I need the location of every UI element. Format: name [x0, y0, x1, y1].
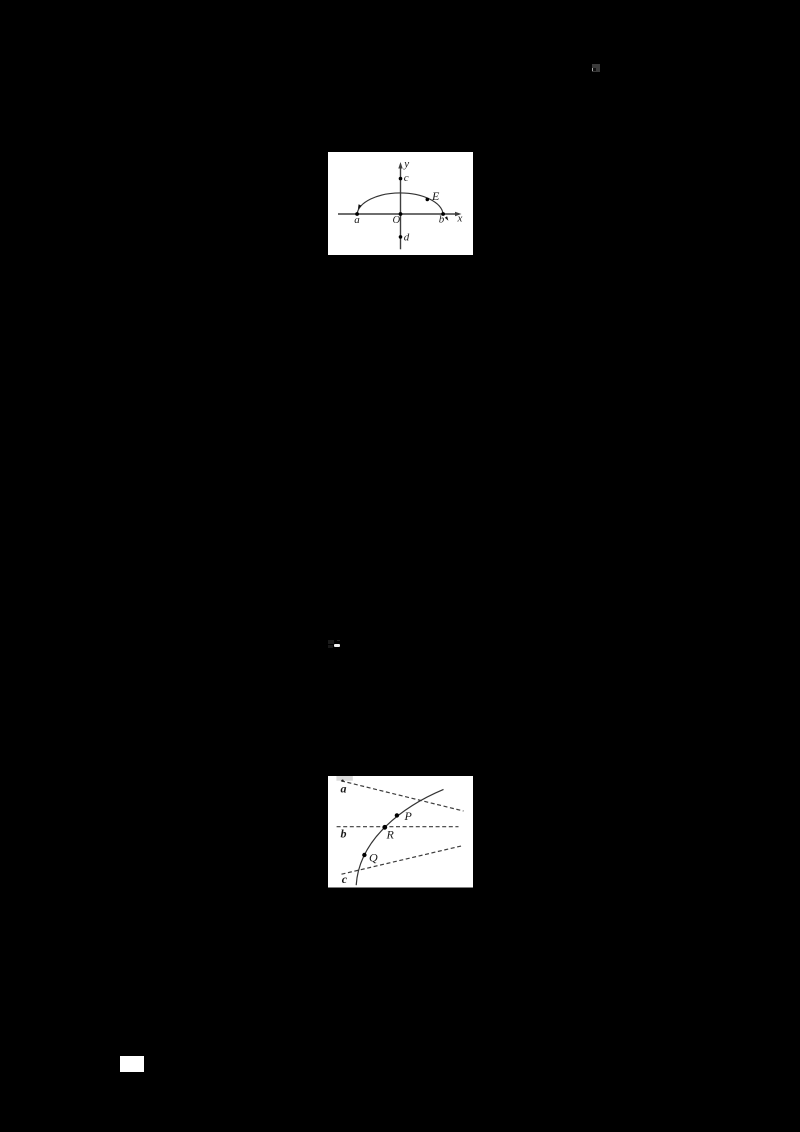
svg-text:x: x — [456, 213, 462, 225]
svg-text:Q: Q — [369, 850, 378, 864]
svg-text:P: P — [403, 809, 412, 823]
svg-text:O: O — [392, 215, 400, 226]
svg-text:E: E — [431, 189, 440, 203]
svg-text:d: d — [403, 232, 409, 244]
svg-text:b: b — [438, 213, 444, 225]
svg-text:R: R — [385, 828, 394, 842]
svg-text:a: a — [340, 782, 346, 796]
svg-text:c: c — [341, 872, 347, 886]
svg-text:b: b — [340, 827, 346, 841]
svg-text:a: a — [354, 214, 360, 226]
svg-text:c: c — [403, 172, 408, 184]
svg-text:y: y — [403, 158, 409, 170]
